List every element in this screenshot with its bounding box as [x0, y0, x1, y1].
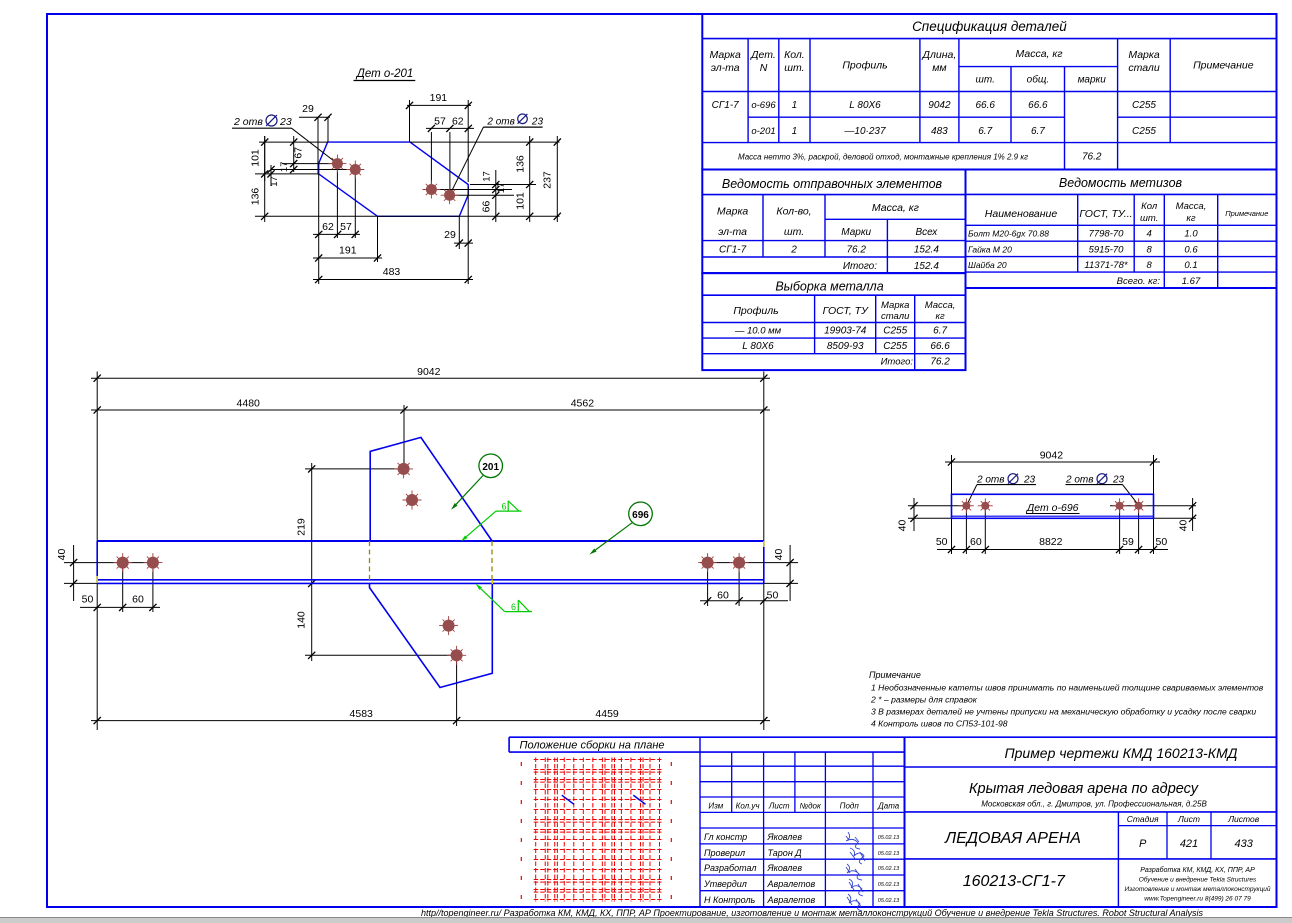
svg-text:Авралетов: Авралетов	[767, 879, 816, 889]
svg-text:С255: С255	[1132, 100, 1156, 111]
svg-text:Выборка металла: Выборка металла	[775, 280, 883, 294]
svg-text:СГ1-7: СГ1-7	[712, 100, 740, 111]
svg-text:4480: 4480	[237, 398, 261, 410]
svg-text:мм: мм	[932, 62, 946, 74]
svg-text:8822: 8822	[1039, 536, 1063, 548]
svg-text:Масса, кг: Масса, кг	[872, 202, 919, 214]
svg-text:23: 23	[279, 116, 292, 128]
svg-text:Крытая ледовая арена по адресу: Крытая ледовая арена по адресу	[969, 781, 1199, 797]
svg-text:эл-та: эл-та	[711, 62, 740, 74]
svg-text:67: 67	[293, 147, 305, 159]
svg-text:Подп: Подп	[840, 802, 860, 811]
svg-text:шт.: шт.	[784, 62, 804, 74]
svg-text:23: 23	[531, 116, 544, 127]
svg-text:1.67: 1.67	[1182, 276, 1201, 287]
svg-text:6.7: 6.7	[978, 126, 992, 137]
svg-text:эл-та: эл-та	[718, 226, 747, 238]
svg-text:60: 60	[970, 536, 982, 548]
svg-text:ГОСТ, ТУ...: ГОСТ, ТУ...	[1079, 208, 1132, 220]
svg-text:Масса нетто 3%, раскрой, делов: Масса нетто 3%, раскрой, деловой отход, …	[738, 153, 1028, 162]
svg-text:696: 696	[632, 510, 649, 521]
svg-text:кг: кг	[1186, 213, 1195, 224]
svg-text:76.2: 76.2	[846, 244, 866, 255]
svg-text:66: 66	[481, 201, 493, 213]
svg-text:Проверил: Проверил	[704, 848, 745, 858]
svg-text:Профиль: Профиль	[842, 60, 887, 72]
svg-text:Н Контроль: Н Контроль	[704, 895, 756, 905]
svg-text:Яковлев: Яковлев	[767, 863, 803, 873]
svg-text:Ведомость отправочных элементо: Ведомость отправочных элементов	[722, 177, 943, 191]
svg-text:9042: 9042	[417, 366, 441, 378]
svg-text:Марки: Марки	[841, 227, 871, 238]
svg-text:Гл констр: Гл констр	[704, 832, 747, 842]
svg-text:2 отв: 2 отв	[486, 116, 514, 127]
svg-text:кг: кг	[936, 311, 945, 322]
svg-text:Кол.: Кол.	[784, 49, 805, 61]
svg-text:С255: С255	[883, 326, 907, 337]
svg-text:6.7: 6.7	[1031, 126, 1045, 137]
svg-text:Лист: Лист	[1177, 814, 1200, 824]
svg-text:Всего. кг:: Всего. кг:	[1117, 276, 1161, 287]
svg-text:Дет.: Дет.	[750, 49, 776, 61]
svg-text:L 80Х6: L 80Х6	[849, 100, 881, 111]
svg-text:05.02.13: 05.02.13	[878, 866, 900, 872]
svg-text:66.6: 66.6	[930, 341, 950, 352]
svg-text:Утвердил: Утвердил	[703, 879, 747, 889]
svg-text:Изм: Изм	[708, 802, 723, 811]
svg-text:9042: 9042	[928, 100, 951, 111]
svg-text:191: 191	[430, 92, 448, 104]
svg-text:4583: 4583	[350, 708, 374, 720]
svg-text:СГ1-7: СГ1-7	[719, 244, 747, 255]
svg-text:5915-70: 5915-70	[1089, 244, 1125, 255]
svg-text:N: N	[760, 62, 768, 74]
svg-text:№док: №док	[799, 802, 822, 811]
svg-text:Масса,: Масса,	[925, 300, 956, 311]
svg-text:Московская обл., г. Дмитров, у: Московская обл., г. Дмитров, ул. Професс…	[981, 800, 1207, 809]
svg-text:17: 17	[482, 171, 493, 182]
svg-text:4: 4	[1147, 229, 1152, 240]
svg-text:Разработка КМ, КМД, КХ, ППР, А: Разработка КМ, КМД, КХ, ППР, АР	[1140, 866, 1255, 874]
svg-text:57: 57	[434, 116, 446, 128]
svg-text:152.4: 152.4	[914, 244, 939, 255]
svg-text:Р: Р	[1139, 838, 1147, 850]
svg-text:С255: С255	[883, 341, 907, 352]
svg-text:66.6: 66.6	[975, 100, 995, 111]
svg-text:Масса, кг: Масса, кг	[1015, 48, 1062, 60]
svg-text:6: 6	[501, 502, 506, 512]
svg-text:57: 57	[340, 221, 352, 233]
svg-text:4562: 4562	[571, 398, 595, 410]
svg-text:Всех: Всех	[916, 227, 939, 238]
svg-text:ГОСТ, ТУ: ГОСТ, ТУ	[823, 305, 869, 317]
svg-text:стали: стали	[1128, 62, 1160, 74]
svg-text:11371-78*: 11371-78*	[1084, 260, 1127, 271]
svg-text:60: 60	[132, 594, 144, 606]
svg-text:L 80Х6: L 80Х6	[742, 341, 774, 352]
svg-text:Разработал: Разработал	[704, 863, 756, 873]
svg-text:Кол-во,: Кол-во,	[776, 206, 811, 218]
svg-text:Стадия: Стадия	[1127, 814, 1159, 824]
svg-text:марки: марки	[1078, 75, 1107, 86]
svg-text:7798-70: 7798-70	[1089, 229, 1125, 240]
svg-text:2 отв: 2 отв	[1065, 475, 1093, 486]
svg-text:140: 140	[296, 611, 308, 629]
svg-text:4459: 4459	[595, 708, 619, 720]
svg-text:Дет о-696: Дет о-696	[1026, 502, 1079, 514]
svg-text:17: 17	[496, 183, 507, 194]
svg-text:Спецификация деталей: Спецификация деталей	[912, 19, 1067, 34]
svg-text:Примечание: Примечание	[1225, 209, 1268, 218]
svg-text:3 В размерах деталей не учтен: 3 В размерах деталей не учтены припуски …	[871, 707, 1256, 717]
svg-text:Авралетов: Авралетов	[767, 895, 816, 905]
svg-text:Обучение и внедрение Tekla St: Обучение и внедрение Tekla Structures	[1139, 876, 1257, 884]
svg-text:Листов: Листов	[1227, 814, 1260, 824]
svg-text:201: 201	[482, 462, 499, 473]
svg-text:50: 50	[767, 590, 779, 602]
svg-text:40: 40	[773, 549, 785, 561]
svg-text:0.6: 0.6	[1184, 244, 1198, 255]
svg-text:Марка: Марка	[717, 206, 749, 218]
svg-text:Ведомость метизов: Ведомость метизов	[1059, 176, 1183, 190]
svg-text:Наименование: Наименование	[985, 208, 1058, 220]
svg-text:Кол.уч: Кол.уч	[736, 802, 760, 811]
svg-text:59: 59	[1122, 536, 1134, 548]
svg-text:Кол: Кол	[1141, 201, 1158, 212]
svg-text:шт.: шт.	[784, 226, 804, 238]
svg-text:60: 60	[717, 590, 729, 602]
svg-text:160213-СГ1-7: 160213-СГ1-7	[963, 873, 1066, 890]
svg-text:1: 1	[792, 100, 798, 111]
svg-text:ЛЕДОВАЯ АРЕНА: ЛЕДОВАЯ АРЕНА	[944, 830, 1081, 847]
svg-text:1 Необозначенные катеты швов: 1 Необозначенные катеты швов принимать п…	[871, 683, 1264, 693]
svg-text:Примечание: Примечание	[869, 670, 921, 680]
svg-text:Положение сборки на плане: Положение сборки на плане	[519, 740, 664, 752]
svg-text:Марка: Марка	[1128, 49, 1160, 61]
svg-text:Примечание: Примечание	[1193, 60, 1254, 72]
svg-text:40: 40	[897, 520, 909, 532]
svg-text:Болт М20-6gх 70.88: Болт М20-6gх 70.88	[968, 229, 1049, 239]
svg-text:433: 433	[1235, 838, 1254, 850]
svg-text:8: 8	[1147, 244, 1153, 255]
svg-text:50: 50	[936, 536, 948, 548]
svg-text:http//topengineer.ru/ Разраб: http//topengineer.ru/ Разработка КМ, КМД…	[421, 908, 1204, 918]
svg-text:2 отв: 2 отв	[233, 116, 263, 128]
svg-text:237: 237	[542, 171, 554, 189]
svg-text:101: 101	[250, 149, 262, 167]
svg-text:9042: 9042	[1040, 450, 1064, 462]
svg-text:о-201: о-201	[751, 126, 775, 137]
svg-text:05.02.13: 05.02.13	[878, 882, 900, 888]
svg-text:136: 136	[250, 188, 262, 206]
svg-text:17: 17	[279, 162, 290, 173]
svg-text:общ.: общ.	[1027, 74, 1049, 86]
svg-text:Профиль: Профиль	[733, 305, 778, 317]
svg-text:219: 219	[296, 518, 308, 536]
svg-text:8: 8	[1147, 260, 1153, 271]
svg-text:шт.: шт.	[1140, 213, 1158, 224]
svg-text:191: 191	[339, 245, 357, 257]
svg-text:—10·237: —10·237	[843, 126, 886, 137]
svg-text:62: 62	[452, 116, 464, 128]
svg-text:2: 2	[790, 244, 797, 255]
svg-text:Масса,: Масса,	[1176, 201, 1207, 212]
svg-text:о-696: о-696	[751, 100, 776, 111]
svg-text:www.Topengineer.ru 8(49: www.Topengineer.ru 8(499) 26 07 79	[1144, 896, 1251, 903]
svg-text:8509-93: 8509-93	[827, 341, 864, 352]
svg-text:6: 6	[511, 602, 516, 612]
svg-text:Изготовление и монтаж металлок: Изготовление и монтаж металлоконструкций	[1124, 885, 1270, 893]
svg-text:Гайка М 20: Гайка М 20	[968, 244, 1012, 254]
svg-text:62: 62	[322, 221, 334, 233]
svg-text:40: 40	[56, 549, 68, 561]
svg-text:05.02.13: 05.02.13	[878, 898, 900, 904]
svg-text:Тарон Д: Тарон Д	[768, 848, 803, 858]
svg-text:— 10.0 мм: — 10.0 мм	[734, 326, 782, 337]
svg-text:Длина,: Длина,	[922, 49, 957, 61]
svg-text:4 Контроль швов по СП53-101-9: 4 Контроль швов по СП53-101-98	[871, 719, 1008, 729]
svg-text:Шайба 20: Шайба 20	[968, 260, 1007, 270]
svg-text:483: 483	[383, 266, 401, 278]
svg-text:50: 50	[82, 594, 94, 606]
svg-text:23: 23	[1023, 475, 1036, 486]
svg-text:С255: С255	[1132, 126, 1156, 137]
svg-text:66.6: 66.6	[1028, 100, 1048, 111]
svg-text:2 * – размеры для справок: 2 * – размеры для справок	[870, 695, 978, 705]
svg-text:23: 23	[1112, 475, 1125, 486]
svg-text:шт.: шт.	[976, 75, 995, 86]
svg-text:Марка: Марка	[710, 49, 742, 61]
svg-text:6.7: 6.7	[933, 326, 947, 337]
svg-text:136: 136	[514, 155, 526, 173]
svg-text:Пример чертежи КМД 160213-КМД: Пример чертежи КМД 160213-КМД	[1004, 745, 1237, 761]
svg-text:19903-74: 19903-74	[824, 326, 867, 337]
svg-text:стали: стали	[881, 311, 910, 322]
svg-text:76.2: 76.2	[1082, 152, 1102, 163]
svg-text:Итого:: Итого:	[843, 261, 877, 272]
svg-text:0.1: 0.1	[1184, 260, 1197, 271]
svg-text:Итого:: Итого:	[881, 357, 914, 368]
svg-text:Лист: Лист	[768, 802, 790, 811]
svg-text:50: 50	[1156, 536, 1168, 548]
svg-text:421: 421	[1180, 838, 1198, 850]
svg-text:101: 101	[514, 192, 526, 210]
svg-text:76.2: 76.2	[930, 357, 950, 368]
svg-text:05.02.13: 05.02.13	[878, 851, 900, 857]
svg-text:17: 17	[269, 176, 280, 187]
svg-text:05.02.13: 05.02.13	[878, 835, 900, 841]
svg-text:29: 29	[444, 229, 456, 241]
svg-text:1: 1	[792, 126, 798, 137]
svg-text:29: 29	[302, 103, 314, 115]
svg-text:Яковлев: Яковлев	[767, 832, 803, 842]
svg-text:152.4: 152.4	[914, 261, 939, 272]
svg-text:Дет о-201: Дет о-201	[355, 68, 414, 80]
svg-text:40: 40	[1178, 520, 1190, 532]
svg-text:483: 483	[931, 126, 948, 137]
svg-text:2 отв: 2 отв	[976, 475, 1004, 486]
svg-text:1.0: 1.0	[1184, 229, 1198, 240]
svg-text:Дата: Дата	[877, 802, 900, 811]
svg-text:Марка: Марка	[881, 300, 909, 311]
